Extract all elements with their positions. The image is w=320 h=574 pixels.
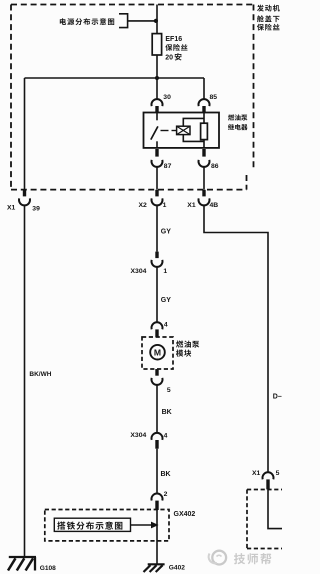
label: ground distribution diagram (搭铁分布示意图) (57, 522, 65, 530)
svg-text:BK: BK (162, 409, 172, 416)
svg-text:87: 87 (164, 163, 172, 170)
svg-text:85: 85 (210, 94, 218, 101)
svg-text:EF16: EF16 (165, 36, 182, 43)
svg-text:X304: X304 (131, 268, 147, 275)
wire: 86 down to X1 (203, 166, 205, 189)
underhood fusebox dashed border (bottom) (11, 189, 247, 191)
label: underhood fuse box (发动机舱盖下保险丝) (257, 5, 264, 12)
wire: 87 down to X2 (156, 166, 158, 189)
label: power distribution diagram (电源分布示意图) (60, 18, 66, 25)
wire: inside control module (268, 489, 282, 528)
svg-text:BK: BK (161, 471, 171, 478)
pump connector pin 4 (152, 322, 163, 329)
wire: X1 4B to control module (204, 205, 268, 473)
ground G402 (148, 563, 165, 565)
relay socket pin 87 (155, 149, 158, 157)
arrow: to GX402 wire (131, 524, 152, 526)
svg-text:X1: X1 (187, 202, 196, 209)
module connector X1 pin 5 (263, 472, 274, 479)
relay K9 box (144, 113, 220, 148)
connector X1 pin 4B (202, 190, 205, 197)
svg-text:1: 1 (163, 202, 167, 209)
wire: relay pin 30 drop (156, 78, 158, 100)
wire: battery feed from top border (156, 5, 158, 34)
wire: feed bus horizontal (25, 77, 205, 79)
svg-text:2: 2 (164, 491, 168, 498)
svg-text:G108: G108 (40, 565, 56, 572)
svg-text:4: 4 (164, 432, 168, 439)
relay socket pin 86 (202, 149, 205, 157)
wire: X2 to X304 (GY) (156, 205, 158, 252)
svg-text:5: 5 (276, 470, 280, 477)
svg-text:GY: GY (161, 229, 171, 236)
label: fuel pump module (燃油泵模块) (176, 341, 183, 348)
wire: pump to X304 (BK) (156, 384, 158, 433)
relay socket pin 30 (152, 99, 163, 106)
underhood fusebox dashed border (right) (253, 5, 255, 171)
pump connector pin 5 (155, 369, 158, 376)
fuel pump module dashed box (142, 337, 173, 369)
inline connector X304 pin 1 (155, 252, 158, 259)
connector X2 pin 1 (155, 190, 158, 197)
junction dot: feed tap (154, 19, 158, 23)
watermark text (技师帮) (234, 553, 245, 564)
svg-text:X304: X304 (130, 432, 146, 439)
relay socket pin 85 (198, 99, 209, 106)
svg-text:4B: 4B (210, 202, 219, 209)
ground distribution label box (54, 518, 130, 531)
svg-text:4: 4 (164, 322, 168, 329)
wire: resistor to 86 (203, 140, 205, 148)
label: fuel pump relay (燃油泵继电器) (228, 114, 234, 120)
splice connector GX402 (152, 493, 163, 500)
svg-text:D–: D– (273, 393, 282, 400)
wire: left ground branch drop (24, 78, 26, 190)
svg-text:39: 39 (32, 205, 40, 212)
off-page reference bracket (119, 14, 128, 28)
svg-text:86: 86 (211, 163, 219, 170)
wire: relay pin 85 drop (203, 78, 205, 100)
wire: fuse to feed bus (156, 55, 158, 78)
inline connector X304 pin 4 (152, 433, 163, 440)
svg-text:20: 20 (165, 55, 173, 62)
relay suppression resistor (201, 123, 208, 139)
fuse EF16 20A (152, 34, 161, 55)
svg-text:GY: GY (161, 297, 171, 304)
fuel pump motor M (150, 345, 165, 360)
svg-text:X2: X2 (139, 202, 148, 209)
relay mechanical link (dashed) (161, 130, 169, 132)
wire: X304 to pump (GY) (156, 266, 158, 322)
underhood fusebox dashed border (left) (10, 5, 12, 190)
connector X1 pin 39 (left) (23, 190, 26, 197)
label fuse (保险丝) (165, 44, 172, 51)
ground distribution dashed box (45, 510, 169, 541)
wire: GX402 to ground G402 (156, 510, 158, 564)
relay switch contact 30-87 (156, 113, 158, 121)
relay coil (crossed box) (177, 126, 190, 134)
svg-text:GX402: GX402 (174, 511, 196, 518)
watermark logo (212, 551, 226, 565)
wire: coil to 85/86 links (183, 118, 204, 126)
wire: bracket to feed wire (128, 20, 157, 22)
svg-text:X1: X1 (252, 470, 261, 477)
junction dot: feed bus (155, 76, 159, 80)
svg-text:M: M (154, 347, 161, 357)
wire: 85 to resistor (203, 113, 205, 124)
svg-text:X1: X1 (7, 205, 16, 212)
wire: left branch to G106 (24, 205, 26, 557)
svg-text:1: 1 (163, 268, 167, 275)
ground G108 (9, 556, 36, 558)
svg-text:G402: G402 (169, 565, 185, 572)
wire: X304 to GX402 (BK) (156, 449, 158, 494)
svg-text:5: 5 (167, 387, 171, 394)
svg-text:BK/WH: BK/WH (29, 371, 51, 378)
svg-text:30: 30 (163, 94, 171, 101)
underhood fusebox dashed border (top) (11, 4, 254, 6)
fuel pump control module dashed box (247, 489, 282, 491)
